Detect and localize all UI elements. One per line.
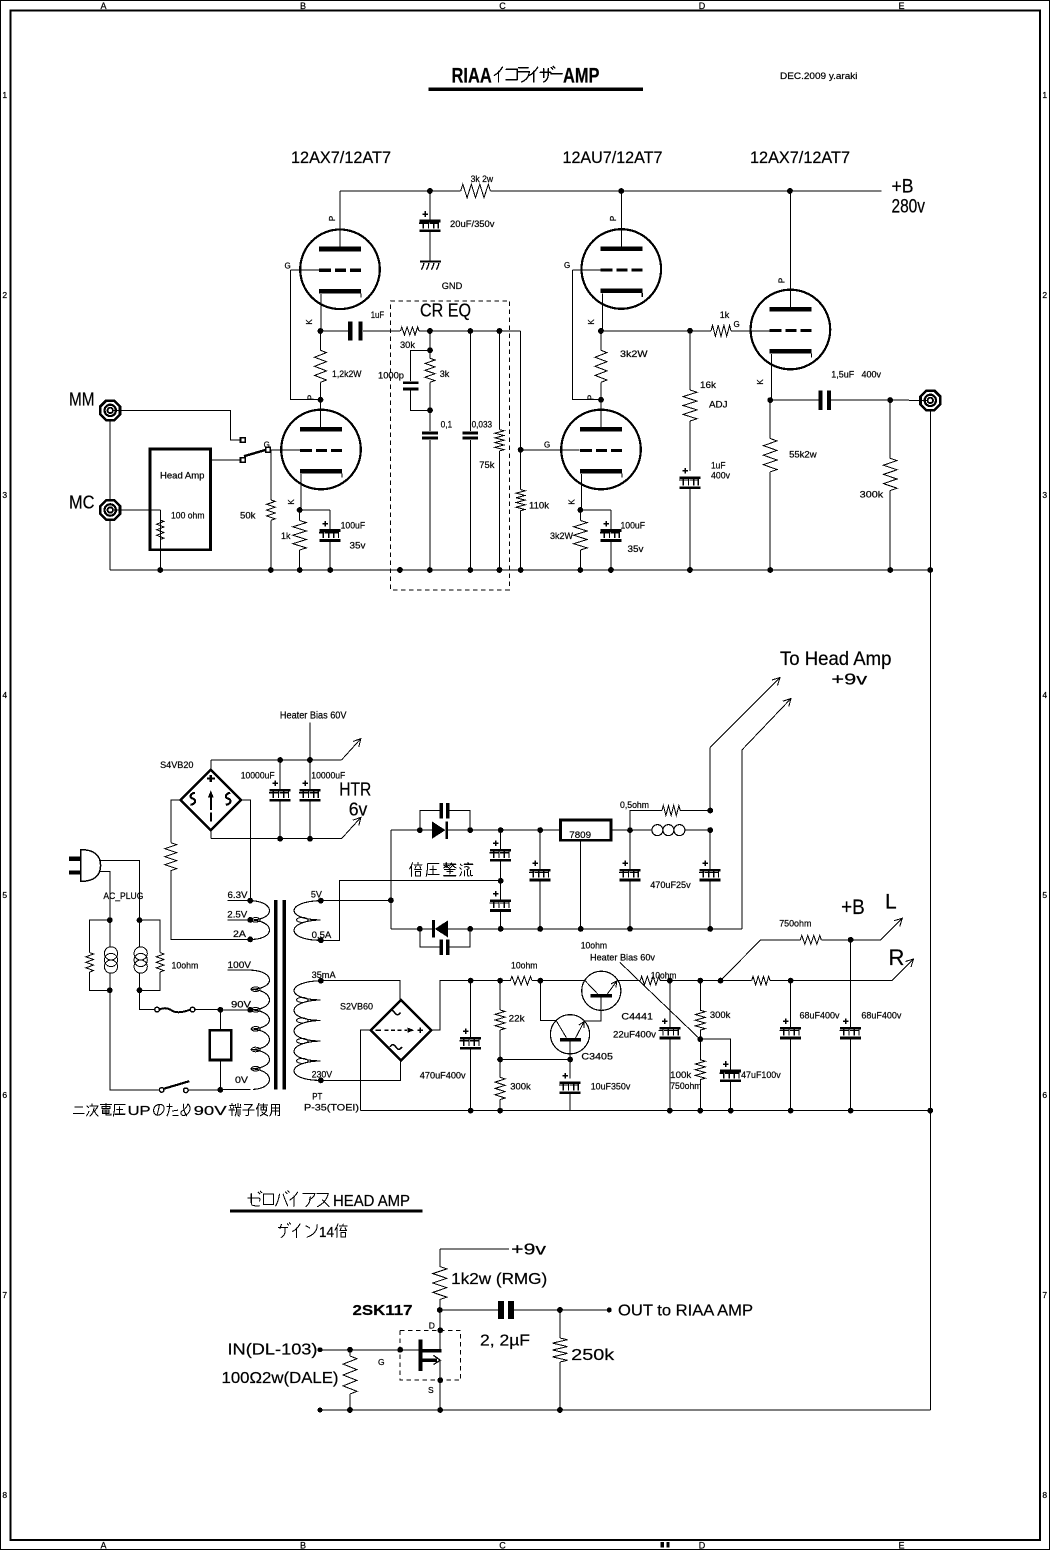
capacitor 1uF (coupling) <box>321 310 400 341</box>
svg-text:MM: MM <box>69 390 95 410</box>
label C4441 <box>621 1012 653 1023</box>
node divider mid <box>497 1057 503 1063</box>
label GND <box>442 281 463 292</box>
resistor heater surge <box>165 843 177 871</box>
label AC_PLUG <box>103 891 143 902</box>
wire C3405 collector <box>540 981 556 1021</box>
arrow heater + out <box>342 739 361 760</box>
wire plug neutral to left filter <box>101 871 110 920</box>
svg-text:68uF400v: 68uF400v <box>800 1011 840 1022</box>
node ground bus / 3k2W <box>578 567 584 573</box>
wire bias rail <box>660 978 703 984</box>
resistor damper left (AC) <box>86 920 110 990</box>
wire 30k to EQ nodes <box>419 330 521 332</box>
node D1 anode <box>417 827 423 833</box>
resistor 100ohm 2w DALE <box>343 1350 357 1410</box>
node ground bus / 300k <box>887 567 893 573</box>
pin D label <box>429 1321 435 1331</box>
wire doubler AC vertical <box>390 830 392 929</box>
tube V1a (12AX7 upper triode) <box>300 229 380 309</box>
resistor 55k2w (V3 cathode) <box>763 400 816 570</box>
svg-text:UP: UP <box>128 1103 151 1118</box>
resistor 10ohm damper right (AC) <box>140 920 199 990</box>
node V3 cathode K <box>767 397 773 403</box>
transformer secondary 35mA/230V winding <box>294 981 321 1081</box>
resistor 3k 2w <box>461 174 494 198</box>
svg-text:K: K <box>587 319 596 325</box>
wire 2.5V tap stub <box>227 910 253 923</box>
svg-text:1,5uF: 1,5uF <box>831 370 854 381</box>
svg-text:D: D <box>699 1541 706 1550</box>
svg-text:K: K <box>287 499 296 505</box>
wire ground bus (amp section) <box>110 569 930 571</box>
node B+ L branch <box>718 978 724 984</box>
wire node A down <box>429 331 431 350</box>
wire V1b cathode to 100uF <box>300 510 331 529</box>
node ground bus / 1k <box>297 567 303 573</box>
label MC <box>69 493 95 513</box>
wire heater + rail <box>211 760 342 770</box>
pin K label V1a <box>305 319 314 325</box>
wire 7809 ground pin <box>578 840 584 932</box>
resistor 750ohm (R, unlabeled) <box>700 976 892 985</box>
svg-text:6: 6 <box>1042 1090 1047 1100</box>
svg-text:AMP: AMP <box>563 65 600 88</box>
wire V2b cathode to 100uF <box>580 510 611 529</box>
wire doubler bottom rail <box>391 928 742 930</box>
label 2SK117 <box>353 1302 413 1319</box>
wire V1b cathode lead <box>300 474 301 510</box>
wire 6.3V tap stub <box>228 890 254 903</box>
resistor 16k ADJ <box>683 331 728 471</box>
node D2 cathode <box>417 926 423 932</box>
node C3405 collector tap <box>538 978 544 984</box>
wire 100V tap stub <box>228 960 252 971</box>
wire +9v feed up <box>709 748 711 811</box>
resistor 100 ohm (in head amp box) <box>157 520 164 570</box>
svg-text:0,033: 0,033 <box>472 420 493 431</box>
svg-text:A: A <box>100 1 106 11</box>
node heater rail junctions <box>277 757 313 842</box>
node ground bus / 100uF <box>327 567 333 573</box>
jack MC input <box>100 500 120 520</box>
wire V2a plate to +B rail <box>620 191 622 246</box>
svg-text:PT: PT <box>312 1092 322 1103</box>
resistor 3k2W (V2b cathode) <box>550 510 587 570</box>
node heater bias <box>697 1036 703 1042</box>
wire V1a cathode lead <box>320 294 323 331</box>
resistor 750ohm (L) <box>779 919 821 945</box>
node ground bus / 100ohm <box>157 567 163 573</box>
node ground bus / 50k <box>268 567 274 573</box>
node 0.5A tap <box>318 937 324 943</box>
svg-text:2.5V: 2.5V <box>227 910 248 921</box>
wire diagonal to L branch <box>721 940 761 981</box>
arrow +B L out <box>881 918 903 940</box>
resistor 10ohm (heater bias) <box>640 970 676 985</box>
wire MC jack shell to ground bus <box>109 521 111 570</box>
label MM <box>69 390 95 410</box>
wire doubler ground up <box>741 750 743 929</box>
wire head amp output to switch contact <box>210 459 240 461</box>
svg-text:10ohm: 10ohm <box>511 961 538 972</box>
capacitor 0,1 <box>422 410 452 570</box>
wire 5V tap to doubler <box>321 899 391 901</box>
wire head amp ground rail <box>318 1407 931 1413</box>
tube V2a (12AU7 upper triode) <box>582 229 662 309</box>
label 0,5A <box>312 930 332 941</box>
pin G label (fet) <box>378 1357 385 1367</box>
resistor 30k <box>400 327 419 351</box>
label L <box>885 891 897 914</box>
svg-text:68uF400v: 68uF400v <box>861 1011 901 1022</box>
title underline <box>429 88 643 92</box>
capacitor 68uF400v (L) <box>839 940 901 1114</box>
wire 100uF V2b to ground bus <box>610 542 612 570</box>
svg-text:280v: 280v <box>892 197 926 218</box>
capacitor 47uF100v <box>700 1039 781 1113</box>
node drain output <box>437 1307 443 1313</box>
wire L branch rail <box>761 939 881 941</box>
AC plug <box>69 850 101 882</box>
svg-text:750ohm: 750ohm <box>670 1081 701 1092</box>
node ground bus / 0,1 <box>427 567 433 573</box>
resistor 300k (divider) <box>495 1060 531 1114</box>
node V1b cathode K <box>297 507 303 513</box>
pin P label V2a <box>609 216 618 221</box>
svg-text:S: S <box>428 1385 434 1395</box>
pin S label <box>428 1385 434 1395</box>
wire ground bus to PSU ground (right edge) <box>927 567 933 1111</box>
node EQ A <box>427 328 433 334</box>
wire 20uF cap to ground symbol <box>429 232 431 260</box>
svg-text:100V: 100V <box>228 960 252 971</box>
svg-text:400v: 400v <box>711 471 730 482</box>
svg-text:2A: 2A <box>233 929 247 940</box>
wire 100uF to ground bus <box>329 542 331 570</box>
resistor 75k <box>479 331 504 570</box>
svg-text:+9v: +9v <box>511 1242 546 1259</box>
capacitor 2,2uF output <box>440 1301 560 1319</box>
wire to OUT <box>560 1308 612 1313</box>
svg-text:12AU7/12AT7: 12AU7/12AT7 <box>563 149 663 167</box>
wire 1k to V3 grid <box>731 330 769 332</box>
node EQ top / 75k <box>497 328 503 334</box>
svg-text:3k: 3k <box>440 369 450 380</box>
switch 90V (closed) <box>155 1007 195 1012</box>
label gain 14x <box>279 1223 348 1241</box>
wire 0V tap <box>220 1075 250 1089</box>
resistor 110k <box>516 450 549 570</box>
wire V2a cathode lead <box>601 294 603 331</box>
svg-text:HTR: HTR <box>339 780 371 800</box>
pin G label V2a <box>564 261 570 270</box>
wire C3405 base down <box>569 1041 571 1078</box>
wire doubler top rail <box>391 829 561 831</box>
svg-text:16k: 16k <box>700 380 716 391</box>
resistor 100k 750ohm <box>670 1039 705 1113</box>
svg-text:1k: 1k <box>281 531 291 542</box>
svg-text:22k: 22k <box>509 1014 525 1025</box>
wire 2A tap <box>233 929 253 942</box>
arrow +9v to head amp <box>710 678 780 748</box>
node V2b cathode K <box>578 507 584 513</box>
label +B (psu) <box>841 896 865 919</box>
svg-text:5: 5 <box>1042 890 1047 900</box>
tube V2b (12AU7 lower triode) <box>561 410 641 490</box>
capacitor 20uF/350v <box>419 211 495 232</box>
capacitor 22uF doubler lower <box>489 881 511 932</box>
label 100ohm2w(DALE) <box>222 1370 339 1387</box>
wire MM jack to switch contact <box>113 410 240 440</box>
svg-text:MC: MC <box>69 493 95 513</box>
pin K label V2a <box>587 319 596 325</box>
pin K label V3 <box>756 379 765 385</box>
svg-text:K: K <box>305 319 314 325</box>
capacitor doubler bottom film <box>420 929 470 955</box>
svg-text:G: G <box>564 261 570 270</box>
svg-text:3k2W: 3k2W <box>620 349 648 360</box>
bottom center marks <box>661 1542 670 1548</box>
svg-text:75k: 75k <box>479 460 494 471</box>
svg-text:10uF350v: 10uF350v <box>591 1082 631 1093</box>
label PT P-35(TOEI) <box>304 1092 359 1114</box>
label Heater Bias 60v with leader <box>590 953 700 1040</box>
svg-text:G: G <box>378 1357 385 1367</box>
wire output node to jack <box>890 399 927 401</box>
svg-text:47uF100v: 47uF100v <box>741 1070 781 1081</box>
svg-text:250k: 250k <box>571 1347 614 1364</box>
rectifier S2VB60 bridge <box>371 1000 431 1060</box>
svg-text:D: D <box>699 1 706 11</box>
resistor 1k2w (RMG) <box>433 1249 547 1310</box>
pin G label V1a <box>285 261 291 270</box>
wire PSU ground bus <box>360 1110 930 1112</box>
surge device (box) between 90V and 0V lines <box>210 1010 232 1090</box>
wire bridge AC left to resistor <box>171 800 181 843</box>
capacitor 22uF doubler upper <box>489 827 511 881</box>
svg-text:S2VB60: S2VB60 <box>340 1002 373 1013</box>
capacitor 100uF 35v (V2b) <box>600 521 645 556</box>
wire V2b grid lead <box>521 449 580 451</box>
wire V2a grid lead <box>573 269 601 271</box>
capacitor 10uF350v <box>559 1073 631 1111</box>
frame zone letters top <box>100 1 904 11</box>
node EQ B <box>427 407 433 413</box>
svg-text:ADJ: ADJ <box>709 400 728 411</box>
svg-text:3k 2w: 3k 2w <box>471 174 494 185</box>
frame zone numbers right <box>1042 90 1047 1500</box>
switch MM/MC select <box>241 438 271 463</box>
svg-text:1,2k2W: 1,2k2W <box>332 369 362 380</box>
wire V3 cathode lead <box>770 354 771 400</box>
node ground bus / 110k <box>518 567 524 573</box>
title RIAA equalizer AMP <box>452 65 600 88</box>
wire +B rail <box>340 190 882 192</box>
svg-text:5: 5 <box>2 890 7 900</box>
svg-text:+B: +B <box>892 177 914 198</box>
diode D2 (doubler bottom) <box>432 920 448 937</box>
label tube V2 12AU7/12AT7 <box>563 149 663 167</box>
svg-text:E: E <box>898 1541 904 1550</box>
node V2b plate <box>598 397 604 403</box>
resistor 300k (output load) <box>860 400 897 570</box>
label CR EQ <box>420 301 471 321</box>
capacitor 470uF after 7809 <box>619 830 641 932</box>
svg-text:35v: 35v <box>628 544 644 555</box>
label 10ohm upper <box>581 941 607 952</box>
resistor 250k <box>553 1310 615 1410</box>
wire EQ output to V2b grid <box>520 331 522 450</box>
wire MM jack shell to MC jack shell <box>109 421 111 499</box>
box Head Amp <box>150 449 210 550</box>
node 5V tap <box>318 898 324 904</box>
node D2 anode <box>467 926 473 932</box>
title zero-bias HEAD AMP <box>248 1191 410 1210</box>
svg-text:12AX7/12AT7: 12AX7/12AT7 <box>750 149 850 167</box>
svg-text:C3405: C3405 <box>581 1052 613 1063</box>
svg-text:A: A <box>100 1541 106 1550</box>
label C3405 <box>581 1052 613 1063</box>
pin K label V2b <box>568 499 577 505</box>
svg-text:100uF: 100uF <box>341 521 366 532</box>
pin G label V3 <box>734 320 740 329</box>
svg-text:1: 1 <box>1042 90 1047 100</box>
svg-text:IN(DL-103): IN(DL-103) <box>228 1342 318 1359</box>
wire +B rail to 20uF cap <box>429 191 431 220</box>
node EQ A2 <box>427 347 433 353</box>
node 250k top <box>557 1307 563 1313</box>
capacitor 470uF before 7809 <box>529 827 551 932</box>
transformer primary 100V/90V/0V winding <box>250 970 269 1089</box>
svg-text:110k: 110k <box>529 501 549 512</box>
capacitor 22uF400v <box>613 981 680 1114</box>
wire V1a grid to V1b plate (SRPP) <box>291 270 321 400</box>
svg-text:50k: 50k <box>240 511 256 522</box>
transformer 5V/0.5A winding <box>294 901 321 941</box>
svg-text:10ohm: 10ohm <box>172 961 199 972</box>
svg-text:4: 4 <box>2 690 7 700</box>
pin K label V1b <box>287 499 296 505</box>
wire V1a plate to +B rail <box>339 191 341 247</box>
capacitor 100uF 35v (V1b) <box>319 521 366 552</box>
capacitor 1,5uF 400v (output) <box>770 370 890 410</box>
svg-text:2: 2 <box>2 290 7 300</box>
node choke out <box>707 827 713 833</box>
node EQ top / 0,033 <box>468 328 474 334</box>
svg-text:7809: 7809 <box>569 830 591 841</box>
resistor 10ohm (B+ filter) <box>510 961 537 985</box>
note: use 90V terminal to raise secondary voltage <box>74 1103 280 1118</box>
svg-text:35mA: 35mA <box>312 970 337 981</box>
box CR EQ (dashed) <box>390 301 509 590</box>
regulator 7809 <box>561 820 612 841</box>
svg-text:+9v: +9v <box>831 672 867 689</box>
svg-text:90V: 90V <box>231 1000 252 1011</box>
pin P label V1b <box>307 395 316 400</box>
svg-text:OUT to RIAA AMP: OUT to RIAA AMP <box>618 1303 753 1320</box>
capacitor 10000uF (first) <box>241 760 291 839</box>
svg-text:7: 7 <box>2 1290 7 1300</box>
wire V1a grid lead <box>291 269 320 271</box>
svg-text:Heater Bias 60V: Heater Bias 60V <box>280 711 347 722</box>
node ground bus / 55k2w <box>767 567 773 573</box>
svg-text:B: B <box>300 1 306 11</box>
node 16k tap <box>687 328 693 334</box>
svg-text:100k: 100k <box>670 1070 691 1081</box>
wire plug hot to right filter <box>101 861 140 921</box>
svg-text:470uF400v: 470uF400v <box>420 1071 466 1082</box>
arrow +B R out <box>892 959 914 981</box>
transformer PT core <box>274 900 286 1090</box>
filter choke left (AC) <box>104 917 117 993</box>
svg-text:Head Amp: Head Amp <box>160 471 205 482</box>
label tube V3 12AX7/12AT7 <box>750 149 850 167</box>
svg-text:300k: 300k <box>860 490 884 501</box>
wire V1b grid lead <box>271 449 300 451</box>
label tube V1 12AX7/12AT7 <box>291 149 391 167</box>
svg-text:30k: 30k <box>400 340 415 351</box>
svg-text:D: D <box>429 1321 435 1331</box>
svg-text:P: P <box>609 216 618 221</box>
label +B 280v <box>892 177 926 218</box>
node ground bus / 75k <box>497 567 503 573</box>
label 35mA <box>312 970 337 981</box>
label HTR 6v <box>339 780 371 820</box>
svg-text:100Ω2w(DALE): 100Ω2w(DALE) <box>222 1370 339 1387</box>
wire V2b plate riser <box>600 400 602 427</box>
resistor 0,5ohm <box>620 800 710 830</box>
capacitor 470uF400v <box>420 978 481 1114</box>
wire 90V switch to 90V tap <box>195 1009 221 1011</box>
label S2VB60 <box>340 1002 373 1013</box>
node 90V junction <box>218 1007 224 1013</box>
wire heater bias to + rail <box>309 723 311 760</box>
svg-text:G: G <box>734 320 740 329</box>
wire bridge AC right to 6.3V tap <box>241 800 251 901</box>
svg-text:B: B <box>300 1541 306 1550</box>
svg-text:20uF/350v: 20uF/350v <box>450 219 495 230</box>
capacitor 470uF25v <box>650 830 721 932</box>
svg-text:6: 6 <box>2 1090 7 1100</box>
svg-text:6v: 6v <box>349 800 368 820</box>
transistor C3405 <box>550 1015 589 1054</box>
svg-text:3: 3 <box>1042 490 1047 500</box>
node choke out top <box>707 808 713 814</box>
node ground bus / spare <box>397 567 403 573</box>
svg-text:10ohm: 10ohm <box>651 970 677 981</box>
pin P label V2b <box>587 395 596 400</box>
svg-text:1000p: 1000p <box>378 371 404 382</box>
svg-text:8: 8 <box>1042 1490 1047 1500</box>
svg-text:DEC.2009 y.araki: DEC.2009 y.araki <box>780 71 858 82</box>
wire input <box>318 1347 419 1353</box>
capacitor 0,033 <box>463 331 492 570</box>
head amp title underline <box>230 1209 423 1212</box>
svg-text:E: E <box>898 1 904 11</box>
svg-text:10ohm: 10ohm <box>581 941 607 952</box>
node 35mA tap <box>318 978 324 984</box>
svg-text:HEAD AMP: HEAD AMP <box>333 1193 410 1210</box>
svg-text:35v: 35v <box>350 541 366 552</box>
capacitor 1000p <box>378 350 430 410</box>
transistor C4441 <box>582 971 621 1010</box>
label 230V <box>312 1070 333 1081</box>
svg-text:K: K <box>568 499 577 505</box>
tube V3 (12AX7 output triode) <box>751 290 831 370</box>
wire surge resistor to 2A tap <box>171 871 250 940</box>
wire B+ rail middle <box>532 980 585 982</box>
